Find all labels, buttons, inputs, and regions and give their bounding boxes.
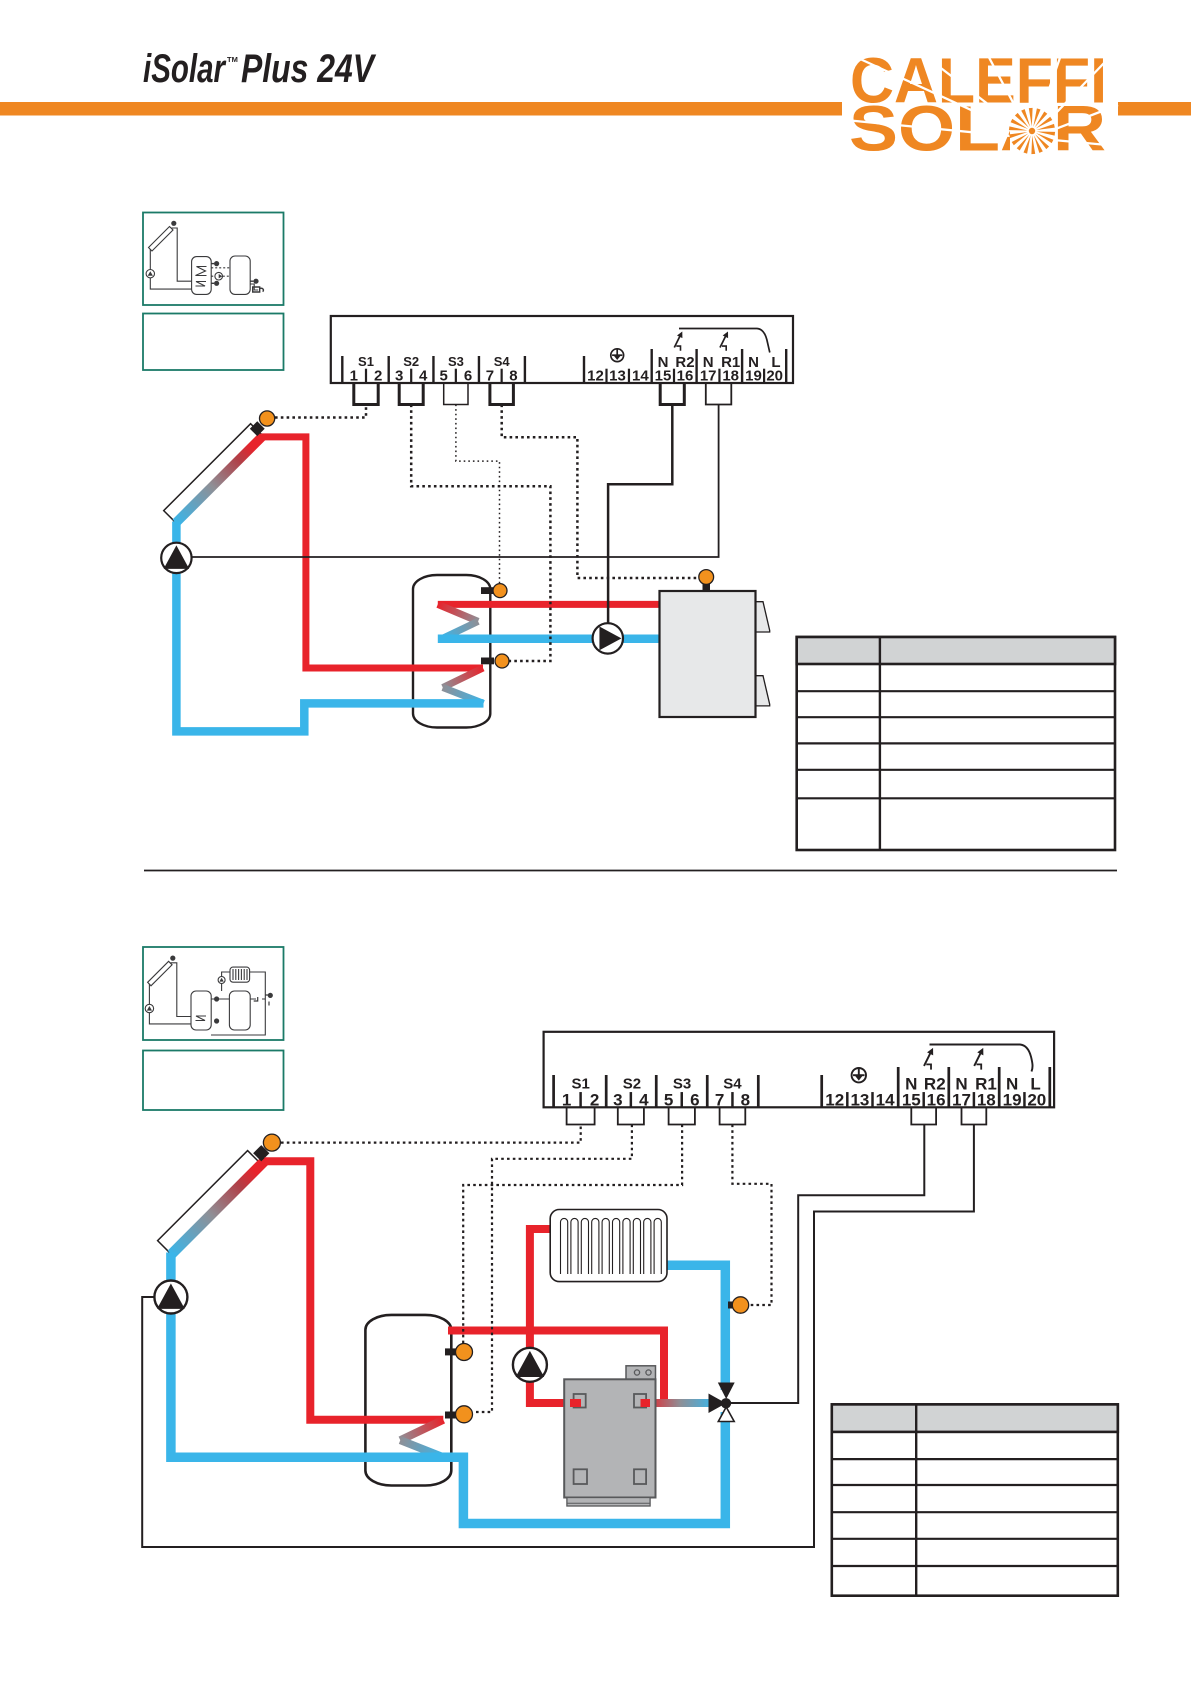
svg-text:N: N [905, 1075, 917, 1094]
svg-text:4: 4 [639, 1090, 649, 1109]
svg-text:1: 1 [562, 1090, 571, 1109]
Caleffi Solar logo [842, 45, 1118, 165]
svg-text:4: 4 [419, 368, 428, 385]
wire sensor S1 dotted [275, 405, 366, 418]
sensor S2 tank bottom 2 [445, 1406, 473, 1423]
wire sensor S4 dotted 2 [732, 1125, 771, 1306]
storage tank 1 [413, 575, 490, 728]
svg-text:13: 13 [850, 1090, 869, 1109]
svg-text:S3: S3 [673, 1076, 691, 1093]
svg-text:R1: R1 [975, 1075, 997, 1094]
caption box 1 [143, 314, 284, 371]
solar pump P1 [161, 543, 191, 573]
svg-text:5: 5 [440, 368, 448, 385]
svg-text:Plus 24V: Plus 24V [241, 47, 377, 91]
valve return pipe blue 2 to tank [435, 1412, 725, 1524]
svg-text:3: 3 [395, 368, 403, 385]
scheme thumbnail box 2 [143, 947, 284, 1040]
wire sensor S3 dotted 2 [463, 1125, 682, 1344]
heating pump P4 [513, 1348, 547, 1382]
svg-text:S2: S2 [623, 1076, 641, 1093]
sensor S4 boiler 1 [699, 570, 714, 592]
sensor S2 tank bottom 1 [481, 654, 509, 668]
boiler to valve gradient pipe [646, 1399, 714, 1407]
solar pipe blue 2 tank to collector [171, 1253, 444, 1458]
boiler port red stubs [570, 1399, 581, 1407]
heating supply pipe red 2 tank to boiler loop [448, 1331, 664, 1404]
controller terminal strip 1 [331, 316, 793, 385]
tank 1 upper coil [438, 604, 478, 621]
svg-text:S1: S1 [358, 354, 374, 369]
svg-text:12: 12 [587, 368, 604, 385]
svg-text:N: N [748, 354, 759, 371]
svg-text:TM: TM [227, 55, 238, 64]
solar pipe blue 1 tank to collector [176, 522, 483, 732]
svg-text:6: 6 [464, 368, 472, 385]
radiator return pipe blue 2 [667, 1265, 726, 1390]
svg-text:L: L [1030, 1075, 1040, 1094]
boiler pipe blue 1 tank to boiler [438, 635, 661, 644]
boiler charge pump P2 [593, 623, 623, 653]
wire relay R2 to valve [731, 1125, 924, 1404]
wire relay R1 to solar pump P1 [192, 405, 719, 558]
solar pump P3 [154, 1281, 187, 1314]
sensor S1 collector 1 [260, 411, 275, 426]
svg-text:S4: S4 [723, 1076, 742, 1093]
wire sensor S2 dotted 2 [473, 1125, 632, 1413]
section separator line [144, 870, 1117, 872]
wire relay R1 to solar pump P3 [142, 1125, 974, 1548]
sensor S3 tank top 2 [445, 1344, 473, 1361]
wire sensor S4 dotted [502, 405, 699, 579]
svg-text:N: N [658, 354, 669, 371]
radiator [550, 1210, 667, 1282]
sensor S4 return 2 [728, 1297, 749, 1313]
tank 2 coil [400, 1420, 443, 1440]
function table 2 [832, 1404, 1118, 1595]
svg-text:7: 7 [715, 1090, 724, 1109]
svg-text:7: 7 [486, 368, 494, 385]
svg-text:S4: S4 [494, 354, 511, 369]
function table 1 [797, 637, 1115, 850]
page header title iSolar Plus 24V [143, 47, 377, 91]
terminal brackets strip 1 [354, 383, 732, 405]
svg-text:N: N [955, 1075, 967, 1094]
wire sensor S1 dotted 2 [281, 1125, 581, 1143]
svg-text:R2: R2 [675, 354, 694, 371]
svg-text:6: 6 [690, 1090, 699, 1109]
svg-text:8: 8 [741, 1090, 750, 1109]
svg-text:R1: R1 [721, 354, 740, 371]
sensor S1 collector 2 [263, 1134, 280, 1151]
orange header bar [0, 102, 1191, 116]
tank 1 lower coil [443, 668, 483, 688]
svg-text:L: L [771, 354, 780, 371]
svg-text:12: 12 [825, 1090, 844, 1109]
controller terminal strip 2 [544, 1032, 1055, 1110]
wire relay R2 to pump P2 [608, 405, 672, 624]
storage tank 2 [365, 1315, 451, 1486]
scheme thumbnail box 1 [143, 213, 284, 306]
svg-text:2: 2 [374, 368, 382, 385]
svg-text:S3: S3 [448, 354, 464, 369]
wire sensor S3 dotted [456, 405, 500, 584]
svg-text:14: 14 [876, 1090, 895, 1109]
caption box 2 [143, 1051, 284, 1111]
wire sensor S2 dotted [411, 405, 550, 662]
svg-text:14: 14 [632, 368, 649, 385]
svg-text:13: 13 [609, 368, 626, 385]
solid fuel boiler 2 [564, 1366, 655, 1506]
solar collector 2 [158, 1145, 270, 1254]
svg-text:8: 8 [509, 368, 517, 385]
svg-text:1: 1 [350, 368, 358, 385]
solar pipe red 1 collector to tank lower coil [262, 437, 484, 668]
solar pipe red 2 collector to tank coil [265, 1161, 444, 1420]
svg-text:S1: S1 [572, 1076, 590, 1093]
three way valve [709, 1383, 735, 1422]
svg-text:iSolar: iSolar [143, 47, 227, 91]
svg-text:R2: R2 [924, 1075, 946, 1094]
svg-text:SOLAR: SOLAR [849, 93, 1106, 165]
svg-text:N: N [703, 354, 714, 371]
terminal brackets strip 2 [567, 1107, 987, 1124]
svg-text:5: 5 [664, 1090, 673, 1109]
svg-text:2: 2 [590, 1090, 599, 1109]
svg-text:3: 3 [613, 1090, 622, 1109]
radiator supply pipe red 2 [530, 1229, 578, 1403]
boiler 1 [660, 591, 770, 717]
sensor S3 tank top 1 [481, 584, 507, 598]
solar collector 1 [164, 421, 265, 523]
svg-text:S2: S2 [403, 354, 419, 369]
svg-text:N: N [1006, 1075, 1018, 1094]
boiler pipe red 1 boiler to tank upper coil [438, 601, 661, 608]
